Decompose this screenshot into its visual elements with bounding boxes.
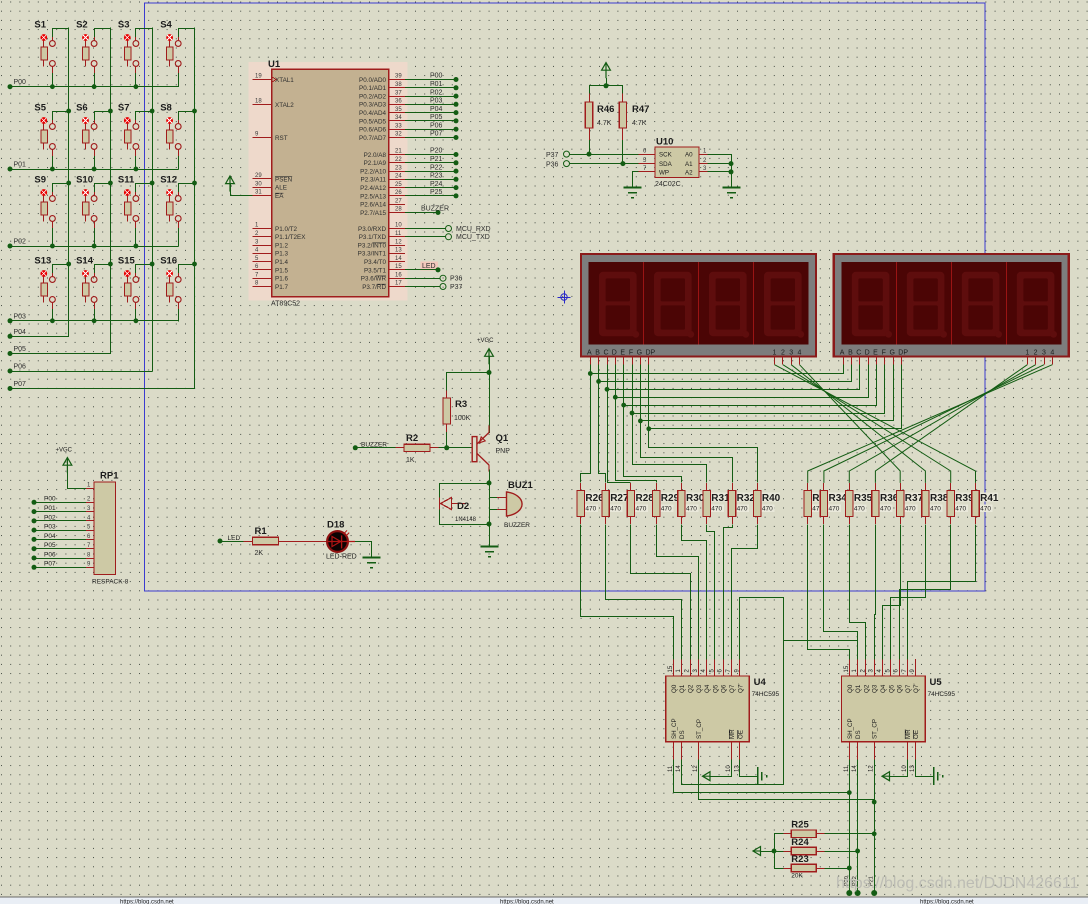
wire P37 to SCK: [570, 154, 639, 156]
node A1 join: [729, 161, 734, 166]
svg-text:G: G: [637, 350, 642, 357]
wire S10 top hook: [95, 184, 111, 192]
switch S15: [118, 256, 139, 310]
svg-text:BUZZER: BUZZER: [421, 206, 449, 213]
svg-text:+VGC: +VGC: [56, 448, 73, 454]
svg-text:P1.1/T2EX: P1.1/T2EX: [275, 234, 306, 241]
svg-text:P2.1/A9: P2.1/A9: [364, 160, 387, 167]
svg-text:RP1: RP1: [100, 471, 119, 482]
wire R31 to U4 Q5: [707, 525, 715, 660]
node BUZZER: [436, 210, 441, 215]
junction column 2 row 4: [108, 262, 113, 267]
wire R23 right: [824, 868, 849, 870]
svg-text:P01: P01: [44, 505, 56, 512]
junction column 4 row 4: [192, 262, 197, 267]
svg-text:Q0: Q0: [847, 684, 854, 693]
svg-text:https://blog.csdn.net: https://blog.csdn.net: [920, 900, 974, 904]
svg-text:R25: R25: [791, 820, 809, 831]
svg-text:P2.4/A12: P2.4/A12: [360, 185, 386, 192]
wire DS1 segment E to resistor: [624, 406, 682, 483]
wire DS2 digit 2 diagonal: [849, 365, 1035, 483]
svg-text:U10: U10: [656, 137, 673, 148]
wire DS1 digit 2 diagonal: [783, 365, 951, 483]
svg-text:470: 470: [955, 506, 966, 513]
junction column 4 row 2: [192, 109, 197, 114]
wire R27 to U4 Q1: [606, 525, 682, 660]
svg-text:P3.2/INT0: P3.2/INT0: [358, 243, 387, 250]
svg-text:P06: P06: [14, 364, 27, 371]
wire bus P04: [10, 336, 69, 338]
switch S16: [160, 256, 181, 310]
wire right bank 7 to U5 Q6: [900, 525, 951, 660]
svg-text:P0.5/AD5: P0.5/AD5: [359, 118, 386, 125]
svg-text:PNP: PNP: [496, 448, 511, 455]
svg-text:F: F: [882, 350, 886, 357]
pin 10 U1 P3.0: [358, 223, 405, 233]
svg-text:R46: R46: [597, 104, 614, 115]
svg-text:P03: P03: [430, 98, 443, 105]
node P05: [8, 351, 13, 356]
pin 30 U1 left: [253, 181, 287, 191]
wire P24 net: [405, 187, 454, 189]
svg-text:U4: U4: [754, 677, 767, 688]
resistor R25: [783, 820, 824, 838]
power arrow U4 MR: [702, 772, 710, 781]
node R47 bottom: [620, 161, 625, 166]
svg-text:20K: 20K: [791, 873, 803, 880]
node P00: [8, 84, 13, 89]
junction S row 1 col 3: [134, 84, 139, 89]
svg-text:P0.2/AD2: P0.2/AD2: [359, 94, 386, 101]
svg-text:470: 470: [930, 506, 941, 513]
pin 11 U1 P3.1: [359, 231, 405, 241]
svg-text:3: 3: [1042, 350, 1046, 357]
svg-text:P2.3/A11: P2.3/A11: [361, 177, 387, 184]
pin 29 U1 left: [253, 173, 293, 183]
wire P07 net: [405, 137, 454, 139]
svg-text:A2: A2: [685, 169, 693, 176]
wire S11 top hook: [136, 184, 153, 192]
wire VGC to RP1 pin1: [68, 467, 87, 489]
svg-text:P24: P24: [430, 181, 443, 188]
svg-text:C: C: [603, 350, 608, 357]
svg-text:P06: P06: [430, 122, 443, 129]
junction S row 2 col 1: [50, 167, 55, 172]
node P24: [454, 185, 459, 190]
junction S row 3 col 2: [92, 244, 97, 249]
svg-text:12: 12: [869, 765, 875, 772]
wire S1 bottom to row bus: [52, 74, 54, 87]
svg-text:MCU_RXD: MCU_RXD: [456, 226, 491, 233]
svg-text:13: 13: [395, 248, 402, 254]
svg-text:Q2: Q2: [688, 684, 695, 693]
svg-text:https://blog.csdn.net: https://blog.csdn.net: [120, 900, 174, 904]
svg-text:Q5: Q5: [712, 684, 719, 693]
wire U4 OE to rail: [740, 760, 758, 777]
svg-text:S8: S8: [160, 103, 172, 114]
wire P23 net: [405, 179, 454, 181]
ground BUZ1: [480, 547, 498, 557]
pin 27 U1 P2.6: [360, 198, 405, 208]
node P20: [454, 152, 459, 157]
wire U10 A0-A2 to ground: [708, 155, 732, 187]
svg-text:SH_CP: SH_CP: [671, 718, 678, 739]
svg-text:P01: P01: [430, 81, 443, 88]
svg-text:BUZ1: BUZ1: [508, 480, 534, 491]
node R2 R3 join: [444, 445, 449, 450]
pin 1 U10 right: [699, 148, 708, 154]
svg-text:S11: S11: [118, 175, 135, 186]
svg-text:P3.0/RXD: P3.0/RXD: [358, 226, 386, 233]
svg-text:39: 39: [395, 74, 402, 80]
wire U4 ST_CP to P21: [699, 760, 875, 800]
svg-text:33: 33: [395, 123, 402, 129]
resistor R26: [577, 483, 584, 524]
svg-text:G: G: [889, 350, 894, 357]
svg-text:17: 17: [395, 281, 402, 287]
svg-text:P3.6/WR: P3.6/WR: [361, 276, 387, 283]
svg-text:470: 470: [905, 506, 916, 513]
svg-text:P37: P37: [546, 152, 559, 159]
wire S10 bottom to row bus: [94, 229, 96, 246]
node P23: [454, 177, 459, 182]
wire Q1 collector down: [489, 470, 491, 547]
svg-text:S7: S7: [118, 103, 130, 114]
svg-text:P0.6/AD6: P0.6/AD6: [359, 127, 386, 134]
svg-text:28: 28: [395, 207, 402, 213]
svg-text:P3.1/TXD: P3.1/TXD: [359, 234, 387, 241]
svg-text:R23: R23: [791, 854, 808, 865]
svg-text:P1.5: P1.5: [275, 267, 288, 274]
wire right bank 2 to U5 Q1: [824, 525, 858, 660]
svg-text:P3.4/T0: P3.4/T0: [364, 259, 387, 266]
wire D18 to ground: [355, 542, 372, 558]
svg-text:11: 11: [844, 765, 850, 772]
svg-text:R32: R32: [737, 493, 756, 504]
wire bus P03: [10, 320, 178, 322]
svg-text:32: 32: [395, 132, 402, 138]
diode D2 1N4148: [440, 498, 477, 524]
pin 2 U1 left: [253, 231, 307, 241]
ground U10 A pins: [722, 188, 740, 198]
switch S10: [76, 175, 97, 229]
node P04: [454, 110, 459, 115]
status bar: [0, 897, 1088, 904]
svg-text:P1.4: P1.4: [275, 259, 288, 266]
wire R29 to U4 Q3: [657, 525, 699, 660]
svg-text:18: 18: [255, 99, 262, 105]
svg-text:WP: WP: [659, 169, 669, 176]
svg-text:P2.2/A10: P2.2/A10: [360, 169, 386, 176]
wire DS2 digit 4 diagonal: [808, 365, 1053, 483]
svg-text:27: 27: [395, 198, 402, 204]
pin 6 U10: [639, 148, 655, 154]
wire R24 right: [824, 851, 857, 853]
pin 9 RP1 P07: [32, 561, 95, 570]
wire DS1 segment G to resistor: [641, 421, 733, 483]
svg-text:P3.3/INT1: P3.3/INT1: [358, 251, 387, 258]
svg-text:https://blog.csdn.net/DJDN4266: https://blog.csdn.net/DJDN426611: [836, 875, 1079, 892]
resistor R31: [703, 483, 710, 524]
svg-text:P03: P03: [44, 524, 56, 531]
pin 21 U1 P2.0: [364, 149, 405, 159]
pin 32 U1 P0.7: [359, 132, 405, 142]
svg-text:3: 3: [789, 350, 793, 357]
svg-text:35: 35: [395, 107, 402, 113]
pin 17 U1 P3.7: [362, 281, 405, 291]
junction column 2 row 3: [108, 181, 113, 186]
wire right bank 6 to U5 Q5: [891, 525, 926, 660]
wire LED to R1: [220, 541, 244, 543]
svg-text:P3.5/T1: P3.5/T1: [364, 267, 387, 274]
svg-text:470: 470: [980, 506, 991, 513]
svg-text:P36: P36: [450, 276, 463, 283]
junction DS1 segment F: [630, 411, 635, 416]
svg-text:F: F: [629, 350, 633, 357]
pin 7 U1 left: [253, 272, 289, 282]
svg-text:S9: S9: [34, 175, 46, 186]
junction DS1 segment E: [621, 403, 626, 408]
pin 6 U1 left: [253, 264, 289, 274]
svg-text:29: 29: [255, 173, 262, 179]
svg-text:ST_CP: ST_CP: [872, 719, 879, 739]
resistor R41: [972, 483, 979, 524]
svg-text:P25: P25: [430, 189, 443, 196]
ground rail U4 OE: [758, 767, 767, 785]
svg-text:U5: U5: [930, 677, 943, 688]
svg-text:R3: R3: [455, 399, 467, 410]
wire keypad column 4 vertical: [194, 28, 196, 389]
svg-text:P04: P04: [14, 329, 27, 336]
svg-text:1: 1: [773, 350, 777, 357]
switch S4: [160, 20, 181, 74]
node D2 top: [487, 481, 492, 486]
switch S11: [118, 175, 139, 229]
svg-text:Q4: Q4: [880, 684, 887, 693]
node A2 join: [729, 169, 734, 174]
pin 22 U1 P2.1: [364, 157, 405, 167]
junction S row 2 col 2: [92, 167, 97, 172]
svg-text:S3: S3: [118, 20, 130, 31]
MCU U1 AT89C52: [249, 59, 408, 308]
pin 37 U1 P0.2: [359, 90, 405, 100]
wire S7 bottom to row bus: [135, 157, 137, 169]
wire DS1 segment C to resistor: [608, 390, 631, 483]
svg-text:P05: P05: [44, 542, 56, 549]
svg-text:470: 470: [711, 506, 722, 513]
pin 23 U1 P2.2: [360, 165, 405, 175]
wire D2 loop: [440, 484, 490, 525]
svg-text:Q6: Q6: [721, 684, 728, 693]
wire P00 net: [405, 79, 454, 81]
wire S12 top hook: [179, 184, 195, 192]
svg-text:4: 4: [798, 350, 802, 357]
wire DS1 segment D to resistor: [616, 398, 657, 483]
svg-text:10: 10: [395, 223, 402, 229]
svg-text:P0.0/AD0: P0.0/AD0: [359, 77, 386, 84]
svg-text:LED-RED: LED-RED: [326, 554, 357, 561]
junction column 2 row 2: [108, 109, 113, 114]
pin 34 U1 P0.5: [359, 115, 405, 125]
svg-text:D18: D18: [327, 520, 344, 531]
wire right bank 5 to U5 Q4: [883, 525, 901, 660]
wire S6 top hook: [95, 112, 111, 120]
wire U4 DS feed: [682, 598, 784, 785]
junction DS1 segment A: [588, 371, 593, 376]
svg-text:P2.0/A8: P2.0/A8: [364, 152, 387, 159]
buzzer BUZ1: [497, 480, 534, 529]
svg-text:S10: S10: [76, 175, 93, 186]
svg-text:P1.2: P1.2: [275, 243, 288, 250]
svg-text:470: 470: [636, 506, 647, 513]
svg-text:P00: P00: [14, 79, 27, 86]
pin 31 U1 left: [253, 190, 285, 200]
node P21 bottom: [871, 890, 877, 896]
wire S15 bottom to row bus: [135, 310, 137, 321]
resistor R23: [783, 854, 824, 872]
svg-text:P20: P20: [430, 148, 443, 155]
svg-text:R28: R28: [636, 493, 655, 504]
wire right bank 3 to U5 Q2: [850, 525, 866, 660]
wire P06 net: [405, 129, 454, 131]
svg-text:XTAL2: XTAL2: [275, 102, 294, 109]
switch S6: [76, 103, 97, 157]
pin 19 U1 left: [253, 74, 295, 84]
wire right bank 8 to U5 Q7: [908, 525, 976, 660]
svg-text:P0.1/AD1: P0.1/AD1: [359, 85, 386, 92]
power arrow U10: [602, 63, 611, 79]
node P22 bottom: [855, 890, 861, 896]
wire S6 bottom to row bus: [94, 157, 96, 169]
svg-text:R37: R37: [905, 493, 924, 504]
svg-text:P02: P02: [14, 239, 27, 246]
svg-text:P02: P02: [430, 89, 443, 96]
wire R1 to D18: [287, 541, 327, 543]
resistor R39: [947, 483, 954, 524]
svg-text:2: 2: [1034, 350, 1038, 357]
svg-text:P36: P36: [546, 162, 559, 169]
pin 4 RP1 P02: [32, 514, 95, 523]
resistor R33: [804, 483, 811, 524]
wire DS1 segment DP to DS2: [649, 365, 902, 429]
power arrow EA: [226, 176, 235, 192]
node P03: [8, 318, 13, 323]
wire P21 net: [405, 162, 454, 164]
svg-text:34: 34: [395, 115, 402, 121]
svg-text:P00: P00: [44, 496, 56, 503]
wire R2 to base: [439, 447, 474, 449]
switch S5: [34, 103, 55, 157]
node R cluster: [772, 849, 777, 854]
svg-text:A1: A1: [685, 161, 693, 168]
svg-text:Q6: Q6: [897, 684, 904, 693]
pin 33 U1 P0.6: [359, 123, 405, 133]
svg-text:P1.7: P1.7: [275, 284, 288, 291]
shift register U4 74HC595: [666, 659, 780, 772]
svg-text:D: D: [612, 350, 617, 357]
svg-text:22: 22: [395, 157, 402, 163]
pin 2 RP1 P00: [32, 496, 95, 505]
pin 4 U1 left: [253, 248, 289, 258]
pin 3 RP1 P01: [32, 505, 95, 514]
switch S14: [76, 256, 97, 310]
svg-text:470: 470: [585, 506, 596, 513]
svg-text:4.7K: 4.7K: [632, 120, 647, 127]
svg-text:P2.6/A14: P2.6/A14: [360, 202, 386, 209]
svg-text:R41: R41: [980, 493, 999, 504]
svg-text:S2: S2: [76, 20, 88, 31]
ground U10 WP: [623, 188, 641, 198]
svg-text:26: 26: [395, 190, 402, 196]
wire DS1 segment F to DS2: [633, 365, 885, 414]
resistor R3: [443, 390, 471, 432]
svg-text:A: A: [587, 350, 592, 357]
wire S4 bottom to row bus: [178, 74, 180, 87]
svg-text:P0.3/AD3: P0.3/AD3: [359, 102, 386, 109]
svg-text:LED: LED: [228, 535, 241, 542]
svg-text:P23: P23: [430, 173, 443, 180]
svg-text:XTAL1: XTAL1: [275, 77, 294, 84]
wire S13 top hook: [53, 265, 69, 273]
wire bus P00: [10, 86, 178, 88]
switch S1: [34, 20, 55, 74]
junction column 3 row 3: [150, 181, 155, 186]
svg-text:DP: DP: [898, 350, 908, 357]
svg-text:A: A: [840, 350, 845, 357]
wire DS1 segment D to DS2: [616, 365, 869, 398]
wire P05 net: [405, 120, 454, 122]
svg-text:Q7: Q7: [729, 684, 736, 693]
svg-text:LED: LED: [422, 263, 436, 270]
node R3 VGC: [487, 370, 492, 375]
junction S row 1 col 1: [50, 84, 55, 89]
svg-text:R30: R30: [686, 493, 705, 504]
wire S11 bottom to row bus: [135, 229, 137, 246]
svg-text:P02: P02: [44, 514, 56, 521]
wire keypad column 3 vertical: [152, 28, 154, 371]
wire S2 top hook: [95, 29, 111, 37]
junction column 3 row 4: [150, 262, 155, 267]
wire S7 top hook: [136, 112, 153, 120]
svg-text:1N4148: 1N4148: [455, 517, 477, 523]
switch S7: [118, 103, 139, 157]
respack RP1: [92, 471, 129, 586]
svg-text:30: 30: [255, 181, 262, 187]
switch S2: [76, 20, 97, 74]
wire R28 to U4 Q2: [631, 525, 691, 660]
svg-text:12: 12: [693, 765, 699, 772]
wire bus P02: [10, 246, 178, 248]
svg-text:SH_CP: SH_CP: [847, 718, 854, 739]
junction S row 4 col 2: [92, 318, 97, 323]
wire S14 bottom to row bus: [94, 310, 96, 321]
node BUZZER net start: [353, 445, 358, 450]
node VCC R46R47: [604, 83, 609, 88]
svg-text:470: 470: [737, 506, 748, 513]
resistor R46: [585, 93, 592, 140]
pin 6 RP1 P04: [32, 533, 95, 542]
terminal MCU_TXD: [405, 234, 490, 241]
node P25: [454, 193, 459, 198]
svg-text:R27: R27: [610, 493, 629, 504]
wire S9 top hook: [53, 184, 69, 192]
svg-text:Q7’: Q7’: [913, 683, 920, 693]
svg-text:1: 1: [1025, 350, 1029, 357]
svg-text:Q1: Q1: [855, 684, 862, 693]
svg-text:ST_CP: ST_CP: [696, 719, 703, 739]
svg-text:Q3: Q3: [696, 684, 703, 693]
wire DS1 digit 3 diagonal: [791, 365, 925, 483]
